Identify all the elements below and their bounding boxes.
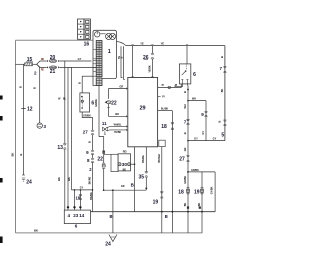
svg-text:GR: GR (121, 185, 125, 188)
svg-text:27: 27 (83, 130, 89, 135)
svg-text:GY: GY (78, 57, 82, 61)
svg-text:35: 35 (139, 174, 145, 180)
svg-text:B: B (183, 132, 187, 134)
svg-text:23: 23 (73, 213, 79, 218)
svg-text:GR/BK: GR/BK (184, 176, 187, 184)
svg-text:GY: GY (194, 136, 198, 140)
svg-text:BK: BK (123, 168, 127, 171)
svg-text:BK: BK (115, 112, 119, 116)
svg-text:BK: BK (34, 228, 38, 232)
svg-text:13: 13 (57, 145, 63, 151)
svg-text:GR/BK: GR/BK (191, 169, 199, 172)
svg-text:BK: BK (221, 89, 224, 93)
svg-text:5: 5 (221, 133, 224, 139)
svg-text:BK: BK (57, 177, 61, 181)
svg-text:12: 12 (27, 107, 33, 113)
svg-text:PI: PI (162, 84, 165, 87)
svg-text:B: B (77, 82, 81, 84)
svg-text:B: B (218, 120, 222, 122)
svg-text:18: 18 (178, 189, 184, 195)
svg-text:BK/WH: BK/WH (158, 154, 161, 162)
svg-text:B: B (165, 214, 168, 219)
svg-text:16: 16 (84, 42, 90, 48)
svg-text:PI: PI (162, 96, 165, 99)
svg-text:24: 24 (105, 242, 111, 248)
svg-text:27: 27 (179, 156, 185, 162)
svg-text:B: B (109, 214, 112, 219)
svg-text:GR: GR (119, 85, 123, 89)
svg-text:19: 19 (194, 189, 200, 195)
svg-text:WH: WH (192, 97, 196, 100)
svg-text:YE/BK: YE/BK (114, 131, 122, 134)
svg-text:GR: GR (184, 147, 187, 151)
svg-text:22: 22 (111, 100, 117, 106)
svg-text:18: 18 (161, 124, 167, 130)
svg-text:14: 14 (79, 213, 85, 218)
svg-text:B: B (33, 87, 37, 89)
svg-text:21: 21 (50, 69, 56, 75)
svg-text:BK/RE: BK/RE (88, 176, 91, 184)
svg-text:BK: BK (198, 203, 201, 207)
svg-text:26: 26 (143, 55, 149, 61)
svg-text:B: B (19, 153, 23, 155)
svg-text:GR/BK: GR/BK (83, 114, 91, 117)
svg-text:15: 15 (27, 57, 33, 63)
svg-text:GY: GY (213, 136, 217, 140)
svg-text:BK/RE: BK/RE (142, 155, 145, 163)
svg-text:1: 1 (108, 49, 111, 55)
svg-text:30: 30 (122, 162, 128, 168)
svg-text:B: B (19, 86, 23, 88)
svg-text:B: B (220, 56, 224, 58)
svg-text:B: B (87, 141, 91, 143)
svg-text:YE: YE (161, 41, 165, 45)
svg-text:GR/RE: GR/RE (95, 99, 98, 107)
svg-text:YE: YE (140, 41, 144, 45)
svg-text:WH/BL: WH/BL (114, 123, 122, 126)
svg-text:BK: BK (11, 153, 15, 157)
svg-text:WH: WH (184, 104, 187, 108)
svg-text:18: 18 (75, 195, 80, 200)
svg-text:GY: GY (202, 131, 205, 135)
svg-text:RE: RE (41, 58, 45, 61)
svg-text:B: B (120, 56, 123, 58)
svg-text:24: 24 (26, 180, 32, 186)
svg-text:RE/: RE/ (123, 150, 127, 153)
svg-text:11: 11 (102, 121, 107, 126)
svg-text:20: 20 (50, 55, 56, 61)
svg-text:BL/BK: BL/BK (161, 108, 169, 111)
svg-text:BL: BL (63, 98, 67, 101)
svg-text:19: 19 (153, 199, 159, 205)
svg-text:YE/BK: YE/BK (148, 65, 151, 73)
svg-text:BK: BK (67, 177, 71, 181)
svg-text:RE: RE (41, 69, 45, 72)
svg-text:B: B (183, 91, 187, 93)
svg-text:22: 22 (97, 156, 103, 162)
svg-text:29: 29 (139, 106, 145, 112)
svg-text:BK/RE: BK/RE (90, 192, 93, 200)
svg-text:BK: BK (184, 203, 187, 207)
svg-text:6: 6 (193, 72, 196, 78)
svg-text:GY/BK: GY/BK (211, 186, 214, 194)
